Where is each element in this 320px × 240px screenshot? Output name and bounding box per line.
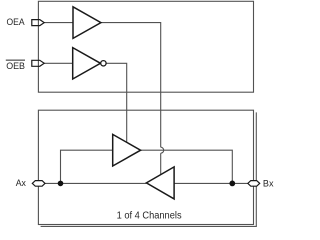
svg-text:Bx: Bx	[263, 178, 274, 188]
svg-text:OEB: OEB	[6, 61, 25, 71]
svg-text:Ax: Ax	[16, 178, 27, 188]
svg-text:OEA: OEA	[7, 17, 25, 27]
svg-text:1 of 4 Channels: 1 of 4 Channels	[117, 210, 182, 221]
